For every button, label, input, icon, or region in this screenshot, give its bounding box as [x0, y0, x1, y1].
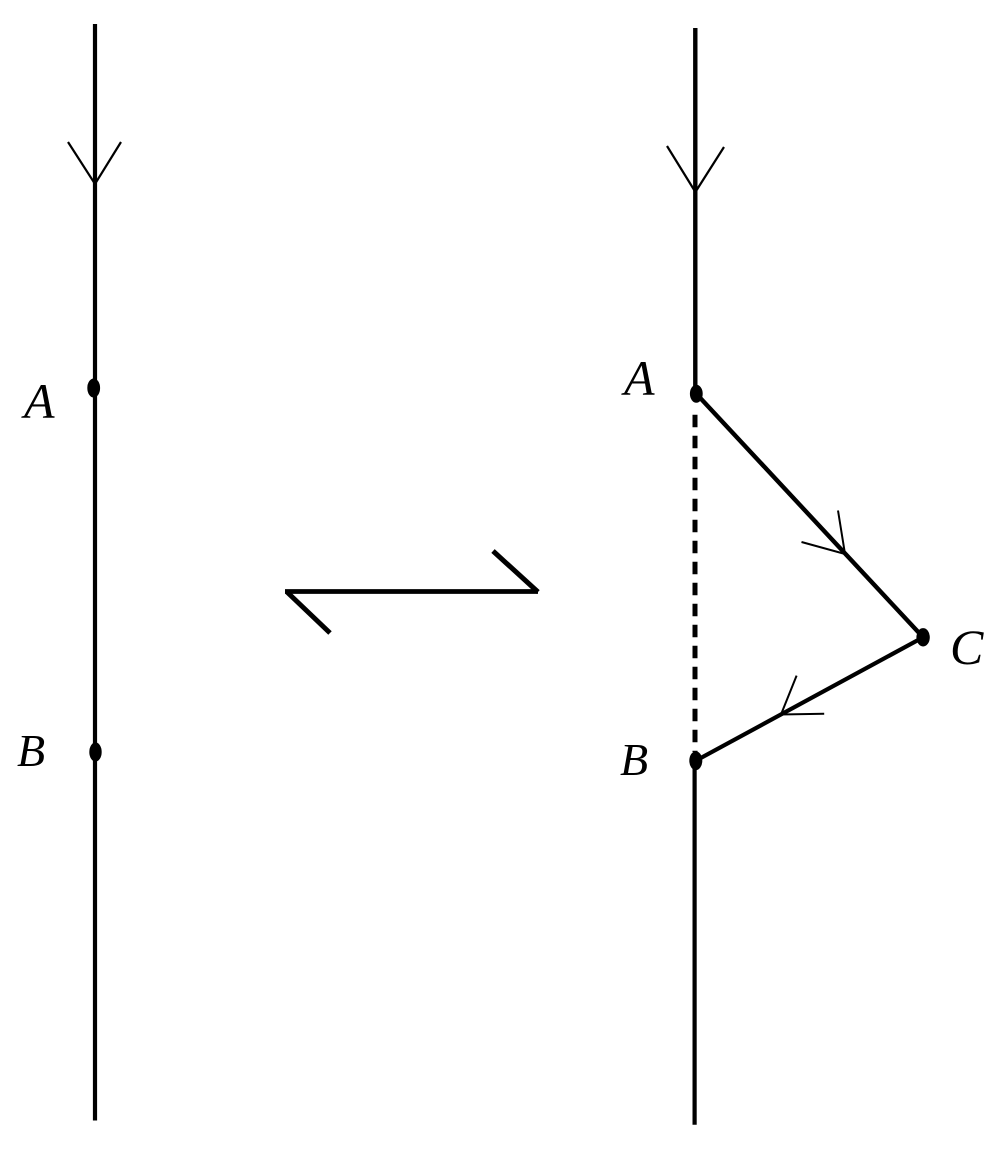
segment C to B	[696, 637, 923, 760]
left arrowhead	[68, 142, 121, 184]
equilibrium symbol right tick	[493, 551, 538, 592]
svg-text:A: A	[621, 350, 655, 406]
right arrowhead	[667, 146, 724, 192]
arrow on C to B	[781, 676, 824, 715]
left worldline	[93, 24, 97, 1121]
svg-text:C: C	[950, 619, 984, 675]
node A right	[690, 385, 703, 403]
svg-text:A: A	[21, 373, 55, 429]
node B right	[689, 751, 702, 770]
node A left	[87, 379, 100, 398]
right worldline lower segment	[692, 761, 696, 1125]
segment A to C	[696, 394, 923, 638]
svg-text:B: B	[620, 734, 648, 785]
arrow on A to C	[802, 511, 846, 555]
svg-text:B: B	[17, 725, 45, 776]
dashed line A to B	[693, 415, 698, 752]
equilibrium symbol left tick	[287, 592, 330, 633]
node B left	[89, 742, 101, 761]
equilibrium symbol horizontal bar	[285, 589, 538, 594]
right worldline upper segment	[693, 28, 697, 396]
node C	[916, 628, 929, 646]
